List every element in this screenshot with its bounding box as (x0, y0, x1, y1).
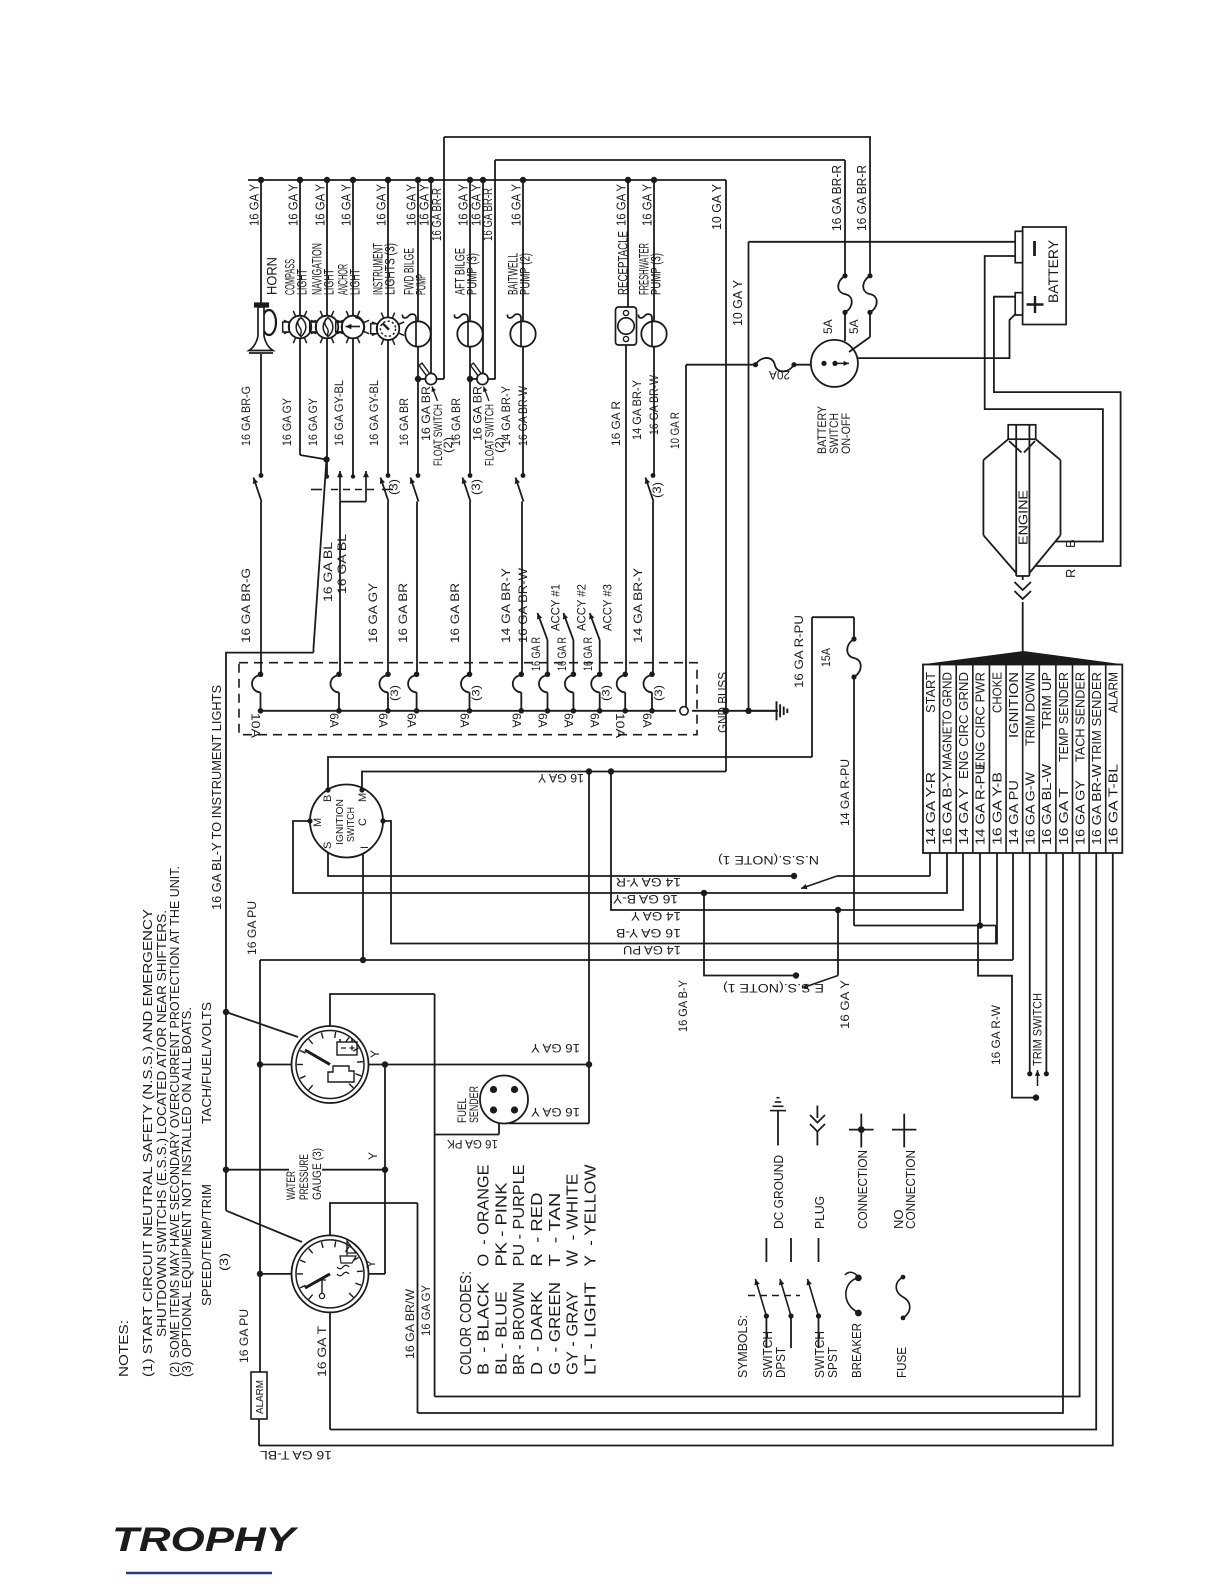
svg-text:BR - BROWN: BR - BROWN (511, 1282, 528, 1375)
svg-text:IGNITION: IGNITION (1007, 672, 1021, 738)
svg-text:16 GA BR-R: 16 GA BR-R (830, 165, 844, 231)
svg-text:16 GA Y: 16 GA Y (531, 1105, 580, 1119)
svg-text:GY - GRAY: GY - GRAY (565, 1291, 582, 1375)
svg-text:16 GA BL: 16 GA BL (321, 542, 335, 602)
svg-text:5A: 5A (821, 319, 835, 334)
svg-text:6A: 6A (536, 713, 550, 728)
svg-text:(3): (3) (601, 685, 613, 701)
svg-text:CHOKE: CHOKE (990, 672, 1004, 713)
svg-text:(1) START CIRCUIT NEUTRAL SAFE: (1) START CIRCUIT NEUTRAL SAFETY (N.S.S.… (141, 908, 155, 1377)
svg-text:N.S.S.(NOTE 1): N.S.S.(NOTE 1) (718, 853, 819, 867)
svg-text:16 GA Y-B: 16 GA Y-B (616, 926, 681, 940)
svg-text:SHUTDOWN SWITCHS (E.S.S.) LOCA: SHUTDOWN SWITCHS (E.S.S.) LOCATED AT/OR … (155, 910, 169, 1337)
svg-text:PLUG: PLUG (812, 1196, 827, 1229)
svg-text:16 GA BR-R: 16 GA BR-R (855, 165, 869, 231)
svg-text:W - WHITE: W - WHITE (565, 1174, 582, 1267)
svg-text:16 GA Y: 16 GA Y (339, 184, 354, 226)
svg-text:B - BLACK: B - BLACK (475, 1282, 492, 1375)
svg-text:BATTERY: BATTERY (1045, 239, 1061, 303)
svg-text:O - ORANGE: O - ORANGE (475, 1165, 492, 1267)
svg-text:TEMP SENDER: TEMP SENDER (1057, 672, 1071, 762)
svg-text:C: C (357, 818, 369, 826)
svg-text:ACCY #3: ACCY #3 (601, 584, 615, 631)
svg-text:FUSE: FUSE (894, 1347, 909, 1378)
svg-text:14 GA Y: 14 GA Y (631, 909, 681, 923)
svg-text:14 GA Y-R: 14 GA Y-R (616, 875, 681, 889)
svg-text:(3): (3) (650, 482, 664, 498)
svg-text:16 GA Y: 16 GA Y (531, 1041, 580, 1055)
svg-text:START: START (924, 672, 938, 713)
svg-text:GAUGE (3): GAUGE (3) (310, 1148, 324, 1200)
svg-text:ENG CIRC PWR: ENG CIRC PWR (974, 672, 988, 770)
svg-text:SPST: SPST (825, 1347, 840, 1378)
svg-text:16 GA Y: 16 GA Y (614, 184, 629, 226)
svg-text:16 GA R-PU: 16 GA R-PU (792, 615, 806, 688)
svg-text:(3): (3) (471, 685, 483, 701)
svg-text:(3): (3) (389, 685, 401, 701)
svg-text:LT - LIGHT: LT - LIGHT (583, 1282, 600, 1375)
svg-text:ACCY #2: ACCY #2 (574, 584, 588, 631)
svg-text:6A: 6A (327, 713, 341, 728)
svg-text:TRIM DOWN: TRIM DOWN (1024, 672, 1038, 746)
svg-text:B: B (322, 795, 334, 802)
svg-text:16 GA T: 16 GA T (315, 1325, 329, 1377)
svg-text:ON-OFF: ON-OFF (839, 413, 853, 454)
svg-text:6A: 6A (509, 713, 523, 728)
svg-text:16 GA Y: 16 GA Y (286, 184, 301, 226)
svg-text:16 GA BR: 16 GA BR (396, 583, 410, 643)
svg-text:16 GA BR/W: 16 GA BR/W (403, 1288, 417, 1359)
svg-text:16 GA PK: 16 GA PK (447, 1137, 498, 1151)
svg-text:16 GA T-BL: 16 GA T-BL (1107, 764, 1121, 845)
svg-text:16 GA BR-W: 16 GA BR-W (1090, 764, 1104, 845)
svg-text:Y: Y (366, 1152, 380, 1160)
svg-text:FLOAT SWITCH: FLOAT SWITCH (431, 404, 445, 466)
svg-text:SYMBOLS:: SYMBOLS: (735, 1315, 750, 1378)
svg-text:NOTES:: NOTES: (117, 1320, 131, 1377)
svg-text:16 GA R: 16 GA R (555, 637, 569, 671)
svg-text:16 GA PU: 16 GA PU (245, 901, 259, 955)
svg-text:16 GA BR: 16 GA BR (449, 398, 463, 446)
svg-text:HORN: HORN (265, 257, 280, 295)
svg-text:BL - BLUE: BL - BLUE (493, 1291, 510, 1375)
svg-text:TRIM SWITCH: TRIM SWITCH (1031, 993, 1045, 1066)
svg-text:14 GA Y-R: 14 GA Y-R (924, 772, 938, 845)
svg-text:16 GA GY: 16 GA GY (419, 1285, 433, 1336)
svg-text:16 GA BR-W: 16 GA BR-W (647, 374, 661, 435)
svg-text:COLOR CODES:: COLOR CODES: (458, 1271, 475, 1375)
svg-text:PK - PINK: PK - PINK (493, 1182, 510, 1266)
svg-text:6A: 6A (561, 713, 575, 728)
svg-text:16 GA BL: 16 GA BL (335, 534, 349, 594)
svg-text:16 GA BR-R: 16 GA BR-R (430, 188, 444, 241)
svg-text:16 GA Y: 16 GA Y (313, 184, 328, 226)
svg-text:16 GA GY-BL: 16 GA GY-BL (332, 380, 346, 446)
svg-text:6A: 6A (376, 713, 390, 728)
svg-text:TACH/FUEL/VOLTS: TACH/FUEL/VOLTS (199, 1002, 214, 1124)
svg-text:DC GROUND: DC GROUND (771, 1155, 786, 1229)
svg-text:G - GREEN: G - GREEN (547, 1282, 564, 1375)
svg-text:16 GA R-W: 16 GA R-W (989, 1004, 1003, 1065)
svg-text:I: I (359, 846, 371, 849)
svg-text:LIGHT: LIGHT (348, 269, 363, 295)
svg-text:14 GA BR-Y: 14 GA BR-Y (499, 568, 513, 643)
svg-text:TRIM UP: TRIM UP (1040, 672, 1054, 729)
svg-text:LIGHT: LIGHT (295, 269, 310, 295)
svg-text:16 GA R: 16 GA R (529, 637, 543, 671)
svg-text:16 GA BR-W: 16 GA BR-W (516, 567, 530, 643)
svg-text:ALARM: ALARM (1107, 672, 1121, 713)
svg-text:14 GA BR-Y: 14 GA BR-Y (499, 386, 513, 446)
svg-text:CONNECTION: CONNECTION (855, 1150, 870, 1229)
svg-text:WATER: WATER (284, 1171, 298, 1200)
svg-text:TRIM SENDER: TRIM SENDER (1090, 672, 1104, 762)
svg-text:FLOAT SWITCH: FLOAT SWITCH (483, 404, 497, 466)
svg-text:16 GA B-Y: 16 GA B-Y (941, 771, 955, 845)
svg-text:M: M (357, 793, 369, 802)
svg-text:10 GA Y: 10 GA Y (731, 279, 745, 326)
svg-text:16 GA PU: 16 GA PU (237, 1309, 251, 1363)
svg-text:16 GA G-W: 16 GA G-W (1024, 772, 1038, 845)
svg-text:SPEED/TEMP/TRIM: SPEED/TEMP/TRIM (199, 1184, 214, 1306)
svg-text:10A: 10A (613, 713, 627, 738)
svg-text:16 GA Y: 16 GA Y (509, 184, 524, 226)
svg-text:Y - YELLOW: Y - YELLOW (583, 1164, 600, 1267)
svg-text:16 GA GY: 16 GA GY (280, 398, 294, 446)
svg-text:DPST: DPST (773, 1347, 788, 1378)
svg-text:14 GA Y: 14 GA Y (957, 787, 971, 845)
svg-text:16 GA Y: 16 GA Y (247, 184, 262, 226)
svg-text:16 GA GY: 16 GA GY (366, 583, 380, 643)
svg-text:R - RED: R - RED (529, 1193, 546, 1267)
svg-text:6A: 6A (405, 713, 419, 728)
svg-text:20A: 20A (769, 368, 790, 382)
svg-text:14 GA R-PU: 14 GA R-PU (974, 764, 988, 845)
svg-text:16 GA BR-W: 16 GA BR-W (516, 385, 530, 446)
svg-text:16 GA BL-W: 16 GA BL-W (1040, 764, 1054, 845)
svg-text:LIGHTS (3): LIGHTS (3) (383, 243, 398, 295)
svg-text:10A: 10A (249, 713, 263, 738)
svg-text:16 GA BR-G: 16 GA BR-G (239, 386, 253, 446)
svg-text:16 GA Y: 16 GA Y (640, 184, 655, 226)
svg-text:16 GA BR: 16 GA BR (448, 583, 462, 643)
svg-text:16 GA GY-BL: 16 GA GY-BL (367, 380, 381, 446)
svg-text:SWITCH: SWITCH (345, 807, 357, 842)
svg-text:B: B (1063, 539, 1078, 548)
svg-text:ACCY #1: ACCY #1 (549, 584, 563, 631)
svg-text:PUMP (3): PUMP (3) (649, 253, 664, 295)
svg-text:BREAKER: BREAKER (849, 1323, 864, 1378)
svg-text:16 GA Y-B: 16 GA Y-B (990, 772, 1004, 845)
svg-text:PU - PURPLE: PU - PURPLE (511, 1165, 528, 1267)
svg-text:PUMP (3): PUMP (3) (465, 253, 480, 295)
svg-text:TROPHY: TROPHY (112, 1521, 299, 1559)
svg-text:16 GA Y: 16 GA Y (538, 771, 584, 785)
svg-text:16 GA BL-Y TO INSTRUMENT LIGHT: 16 GA BL-Y TO INSTRUMENT LIGHTS (210, 685, 224, 910)
svg-text:E.S.S.(NOTE 1): E.S.S.(NOTE 1) (723, 981, 824, 995)
svg-text:16 GA T: 16 GA T (1057, 788, 1071, 845)
svg-text:ENGINE: ENGINE (1016, 490, 1031, 545)
svg-text:6A: 6A (640, 713, 654, 728)
svg-text:16 GA BR: 16 GA BR (397, 398, 411, 446)
svg-text:(3): (3) (469, 479, 483, 495)
svg-text:16 GA GY: 16 GA GY (1073, 779, 1087, 845)
svg-text:SENDER: SENDER (467, 1086, 481, 1123)
svg-text:16 GA B-Y: 16 GA B-Y (613, 892, 678, 906)
svg-text:PUMP (2): PUMP (2) (518, 253, 533, 295)
svg-text:6A: 6A (588, 713, 602, 728)
svg-text:16 GA R: 16 GA R (581, 637, 595, 671)
svg-text:ALARM: ALARM (255, 1380, 266, 1414)
svg-text:MAGNETO GRND: MAGNETO GRND (941, 672, 955, 770)
svg-text:16 GA Y: 16 GA Y (838, 980, 852, 1029)
svg-text:16 GA BR-G: 16 GA BR-G (239, 568, 253, 643)
svg-text:ENG CIRC GRND: ENG CIRC GRND (957, 672, 971, 779)
svg-text:Y: Y (368, 1050, 382, 1058)
svg-text:6A: 6A (458, 713, 472, 728)
svg-text:5A: 5A (847, 319, 861, 334)
svg-text:16 GA R: 16 GA R (609, 401, 623, 446)
svg-text:D - DARK: D - DARK (529, 1291, 546, 1375)
svg-text:14 GA BR-Y: 14 GA BR-Y (631, 568, 645, 643)
svg-text:(3) OPTIONAL EQUIPMENT NOT INS: (3) OPTIONAL EQUIPMENT NOT INSTALLED ON … (180, 1007, 194, 1377)
svg-text:PUMP: PUMP (414, 274, 429, 295)
svg-text:(3): (3) (653, 685, 665, 701)
svg-text:PRESSURE: PRESSURE (297, 1154, 311, 1200)
svg-text:S: S (322, 842, 334, 849)
svg-text:16 GA Y: 16 GA Y (374, 184, 389, 226)
svg-text:14 GA PU: 14 GA PU (623, 943, 681, 957)
svg-text:10 GA Y: 10 GA Y (710, 183, 724, 230)
svg-text:M: M (312, 818, 324, 827)
svg-text:16 GA T-BL: 16 GA T-BL (260, 1448, 332, 1462)
svg-text:16 GA B-Y: 16 GA B-Y (676, 980, 690, 1032)
svg-text:TACH SENDER: TACH SENDER (1073, 672, 1087, 762)
svg-text:R: R (1063, 569, 1078, 578)
svg-text:CONNECTION: CONNECTION (903, 1150, 918, 1229)
svg-text:14 GA PU: 14 GA PU (1007, 780, 1021, 845)
svg-text:(3): (3) (387, 479, 401, 495)
svg-text:Y: Y (364, 1260, 378, 1268)
svg-text:15A: 15A (819, 648, 833, 667)
svg-text:14 GA R-PU: 14 GA R-PU (838, 759, 852, 826)
svg-text:16 GA GY: 16 GA GY (306, 398, 320, 446)
svg-text:10 GA R: 10 GA R (668, 412, 682, 449)
svg-text:GND BUSS: GND BUSS (716, 672, 730, 733)
svg-text:(3): (3) (217, 1253, 231, 1271)
svg-text:14 GA BR-Y: 14 GA BR-Y (630, 380, 644, 440)
svg-text:T - TAN: T - TAN (547, 1193, 564, 1267)
